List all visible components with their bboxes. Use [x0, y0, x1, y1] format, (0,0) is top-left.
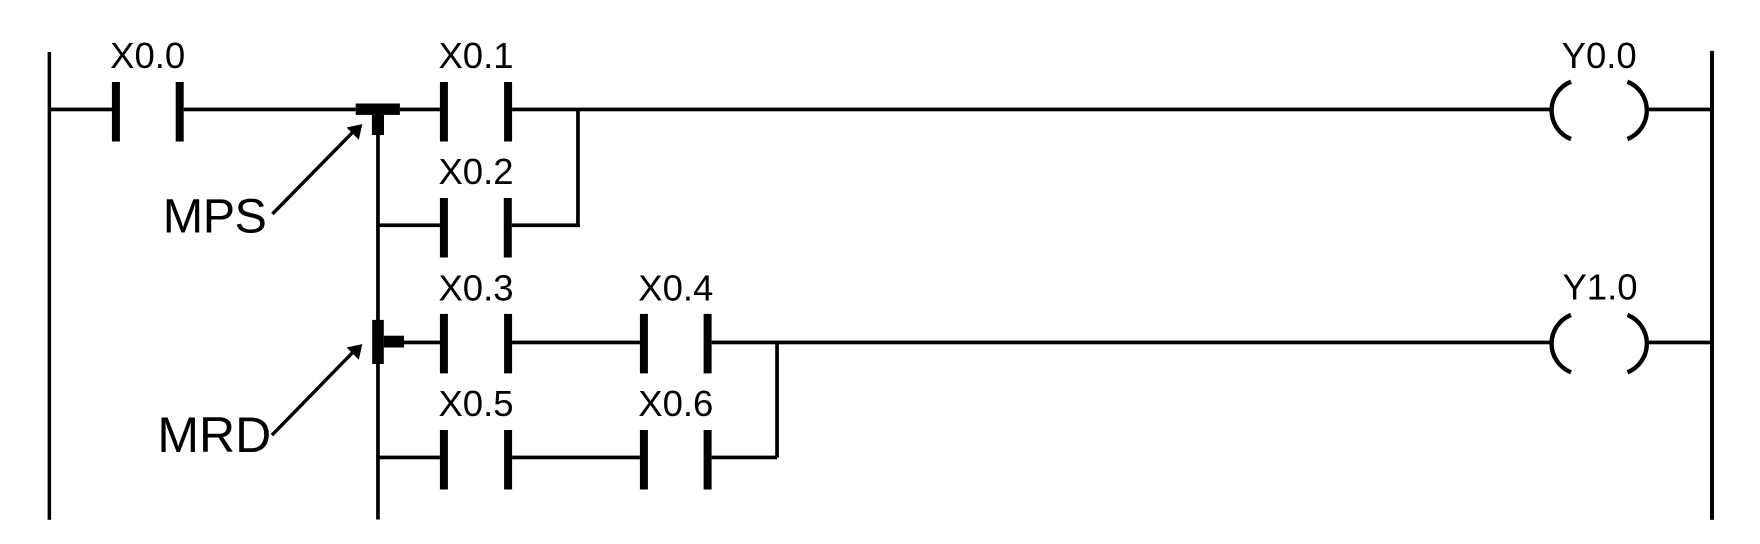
svg-text:Y1.0: Y1.0 — [1562, 267, 1637, 308]
coil Y1.0 — [1552, 315, 1647, 372]
svg-text:X0.1: X0.1 — [438, 35, 513, 76]
vertical stack wire below MPS — [376, 110, 380, 520]
contact X0.2 — [440, 198, 512, 258]
wire X0.5 to X0.6 — [512, 456, 640, 460]
svg-text:X0.2: X0.2 — [438, 151, 513, 192]
svg-text:MRD: MRD — [157, 407, 271, 463]
wire X0.4 to coil Y1.0 — [712, 341, 1552, 345]
branch vertical right of X0.4/X0.6 — [775, 343, 779, 458]
wire coil Y1.0 to right rail — [1647, 341, 1712, 345]
left power rail — [48, 52, 52, 520]
svg-text:X0.0: X0.0 — [110, 35, 185, 76]
MRD junction marker — [372, 320, 404, 364]
coil Y0.0 — [1552, 82, 1647, 139]
branch rung X0.2 wire right — [512, 223, 580, 227]
svg-text:X0.6: X0.6 — [638, 383, 713, 424]
wire coil Y0.0 to right rail — [1647, 108, 1712, 112]
wire rung1 rail to X0.0 — [49, 108, 112, 112]
svg-text:X0.3: X0.3 — [438, 267, 513, 308]
branch vertical right of X0.1/X0.2 — [576, 109, 580, 227]
MPS junction marker — [356, 104, 400, 136]
wire MPS to X0.1 — [400, 108, 440, 112]
svg-text:X0.5: X0.5 — [438, 383, 513, 424]
MRD arrow — [272, 344, 362, 435]
right power rail — [1710, 51, 1714, 520]
contact X0.3 — [440, 314, 512, 374]
wire X0.3 to X0.4 — [512, 341, 640, 345]
svg-text:MPS: MPS — [163, 189, 267, 243]
svg-text:X0.4: X0.4 — [638, 267, 713, 308]
contact X0.1 — [440, 82, 512, 142]
branch rung X0.2 wire left — [377, 223, 440, 227]
branch rung X0.6 wire right — [712, 456, 778, 460]
svg-text:Y0.0: Y0.0 — [1562, 35, 1637, 76]
contact X0.0 — [112, 82, 184, 142]
contact X0.5 — [440, 430, 512, 490]
wire X0.1 to coil Y0.0 — [512, 108, 1552, 112]
contact X0.6 — [640, 430, 712, 490]
contact X0.4 — [640, 314, 712, 374]
wire X0.0 to MPS junction — [184, 108, 356, 112]
MPS arrow — [272, 124, 362, 214]
wire MRD to X0.3 — [404, 341, 440, 345]
branch rung X0.5 wire left — [377, 456, 440, 460]
